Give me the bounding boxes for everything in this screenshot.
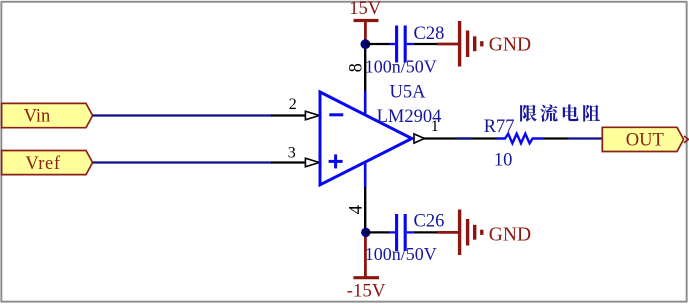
- wire C26 to GND: [414, 231, 458, 233]
- svg-text:Vin: Vin: [24, 107, 51, 127]
- svg-text:OUT: OUT: [626, 131, 664, 151]
- wire top junction to C28: [365, 43, 389, 45]
- power -15V symbol: [347, 236, 386, 302]
- pin 2 number: [289, 96, 297, 113]
- svg-text:C26: C26: [414, 212, 445, 232]
- pin 4 lead: [364, 163, 367, 232]
- ground GND (top): [460, 21, 531, 67]
- svg-text:100n/50V: 100n/50V: [365, 57, 437, 77]
- value 10: [494, 150, 513, 170]
- power +15V symbol: [349, 0, 382, 42]
- wire bottom junction to C26: [366, 231, 390, 233]
- net label 限流电阻: [520, 104, 600, 121]
- pin 2 arrow: [305, 111, 319, 120]
- junction node bottom: [361, 228, 370, 237]
- port Vin: [2, 103, 93, 127]
- pin 8 number (rotated): [347, 63, 367, 72]
- wire overlap at pin 1: [457, 137, 472, 139]
- pin 8 lead: [364, 44, 366, 114]
- svg-text:100n/50V: 100n/50V: [365, 244, 437, 264]
- pin 3 lead: [271, 161, 306, 163]
- svg-text:4: 4: [347, 205, 367, 214]
- svg-text:R77: R77: [484, 117, 515, 137]
- op-amp plus input mark: [329, 154, 343, 168]
- pin 2 lead: [271, 114, 306, 116]
- pin 1 lead: [424, 137, 498, 139]
- port Vref: [2, 151, 93, 175]
- ground GND (bottom): [460, 210, 531, 256]
- value 100n/50V (top): [365, 57, 437, 77]
- value 100n/50V (bottom): [365, 244, 437, 264]
- pin 4 number (rotated): [347, 205, 367, 214]
- svg-text:10: 10: [494, 150, 513, 170]
- svg-text:C28: C28: [414, 24, 445, 44]
- capacitor C26: [389, 214, 414, 251]
- svg-text:15V: 15V: [349, 0, 382, 19]
- resistor R77: [497, 134, 544, 144]
- wire Vin to pin2: [93, 114, 272, 116]
- svg-text:GND: GND: [489, 35, 531, 56]
- label C26: [414, 212, 445, 232]
- label C28: [414, 24, 445, 44]
- pin 1 arrow: [414, 134, 424, 143]
- svg-text:8: 8: [347, 63, 367, 72]
- label R77: [484, 117, 515, 137]
- svg-text:-15V: -15V: [347, 281, 386, 302]
- wire R77 to OUT: [544, 137, 603, 139]
- op-amp U5A triangle: [320, 92, 412, 185]
- svg-text:3: 3: [288, 144, 296, 161]
- pin 3 arrow: [305, 158, 319, 167]
- wire Vref to pin3: [93, 161, 272, 163]
- svg-text:Vref: Vref: [25, 154, 60, 174]
- wire C28 to GND: [414, 43, 458, 45]
- op-amp minus input mark: [329, 113, 343, 116]
- svg-text:U5A: U5A: [390, 82, 427, 102]
- svg-text:GND: GND: [489, 224, 531, 245]
- designator U5A: [390, 82, 427, 102]
- pin 3 number: [288, 144, 296, 161]
- port OUT: [602, 127, 683, 151]
- pin 1 number: [431, 118, 439, 135]
- capacitor C28: [389, 26, 414, 63]
- port tip stub beyond frame: [684, 136, 688, 143]
- svg-text:1: 1: [431, 118, 439, 135]
- svg-text:2: 2: [289, 96, 297, 113]
- junction node top: [361, 39, 371, 49]
- part value LM2904: [377, 107, 442, 127]
